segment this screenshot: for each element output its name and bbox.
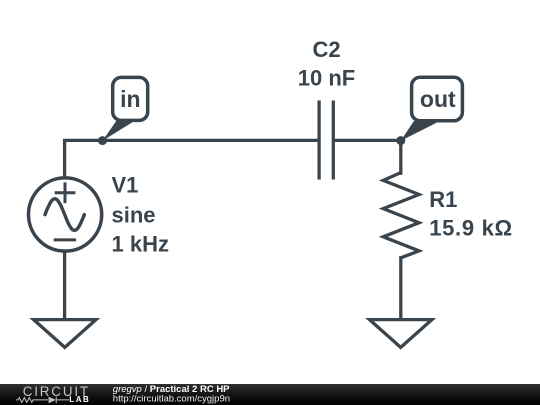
capacitor C2 right plate: [332, 102, 335, 178]
flag "in" box: [113, 77, 148, 120]
svg-text:in: in: [120, 86, 140, 112]
wire: R1 bottom to right ground: [399, 258, 402, 319]
svg-text:10 nF: 10 nF: [298, 65, 355, 90]
svg-text:15.9 kΩ: 15.9 kΩ: [429, 215, 513, 240]
node "in" junction dot: [98, 136, 107, 145]
V1 minus sign: [55, 238, 74, 241]
wire: V1 top lead and horizontal run to C2 left plate: [65, 140, 318, 177]
ground (left) triangle: [34, 320, 96, 348]
V1 sine waveform: [45, 199, 84, 231]
svg-text:C2: C2: [312, 37, 340, 62]
svg-text:sine: sine: [112, 203, 156, 228]
flag "out" pointer tail: [401, 121, 438, 141]
wire: V1 bottom lead to left ground: [63, 252, 66, 320]
svg-text:out: out: [420, 86, 456, 112]
footer bar background: [0, 384, 540, 405]
voltage source V1 circle: [29, 178, 102, 251]
svg-text:R1: R1: [429, 187, 457, 212]
svg-text:1 kHz: 1 kHz: [112, 232, 169, 257]
V1 plus sign: [56, 184, 74, 202]
resistor R1 zigzag body: [383, 173, 419, 258]
svg-text:V1: V1: [112, 173, 139, 198]
ground (right) triangle: [370, 320, 432, 348]
wire: C2 right plate to corner above R1: [335, 140, 401, 173]
flag "in" pointer tail: [103, 121, 133, 141]
CircuitLab logo schematic line (resistor zigzag + diode): [16, 397, 69, 404]
capacitor C2 left plate: [317, 102, 320, 178]
svg-text:http://circuitlab.com/cygjp9n: http://circuitlab.com/cygjp9n: [113, 394, 230, 405]
flag "out" box: [412, 77, 463, 120]
svg-text:LAB: LAB: [69, 395, 90, 404]
node "out" junction dot: [396, 136, 405, 145]
